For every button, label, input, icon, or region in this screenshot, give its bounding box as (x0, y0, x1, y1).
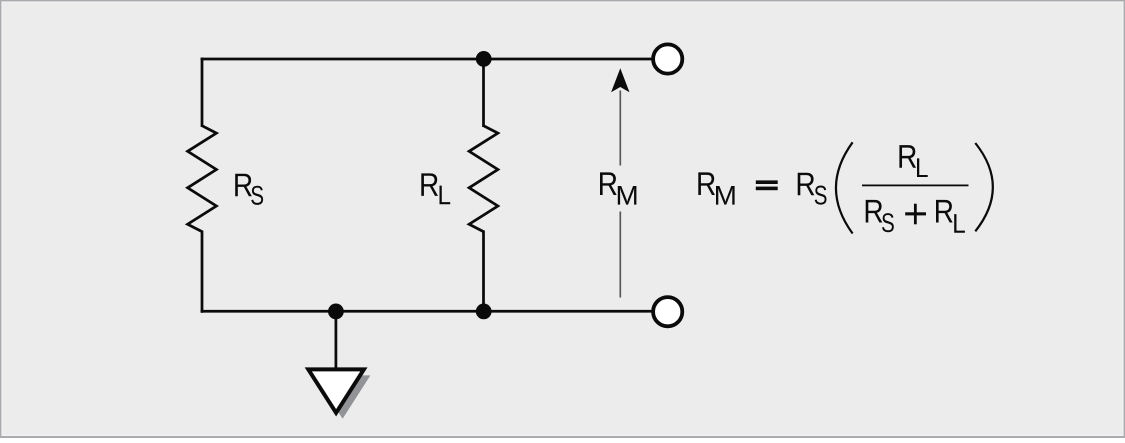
equation fraction bar (862, 185, 969, 187)
arrow RM shaft lower (619, 212, 621, 298)
wire bottom horizontal (201, 310, 653, 313)
equation RM term (698, 172, 734, 204)
wire middle vertical lower (482, 231, 485, 313)
equation denominator RS (866, 200, 894, 232)
equation plus sign (905, 204, 926, 225)
resistor RL (469, 126, 498, 232)
ground wire (335, 311, 338, 369)
terminal top right (653, 44, 682, 73)
ground triangle (308, 369, 364, 412)
arrow RM shaft upper (619, 91, 621, 166)
junction node bottom ground (328, 304, 344, 320)
wire middle vertical upper (482, 58, 485, 127)
equation equals sign (756, 180, 778, 190)
equation RS factor (798, 173, 827, 205)
equation open paren (836, 142, 853, 233)
label RL (421, 173, 450, 204)
wire left vertical lower (201, 231, 204, 313)
equation close paren (975, 143, 993, 231)
wire left vertical upper (201, 58, 204, 127)
resistor RS (188, 126, 217, 232)
terminal bottom right (653, 297, 682, 326)
equation denominator RL (936, 200, 965, 233)
arrow RM head (611, 68, 629, 92)
equation numerator RL (899, 145, 927, 177)
label RM (arrow) (600, 172, 636, 204)
label RS (235, 174, 263, 205)
junction node bottom (RL) (476, 304, 492, 320)
wire top horizontal (201, 58, 653, 61)
ground shadow (315, 375, 371, 418)
junction node top (RL tap) (476, 51, 492, 67)
